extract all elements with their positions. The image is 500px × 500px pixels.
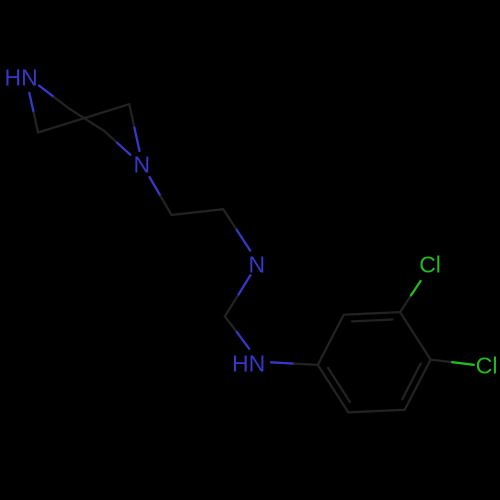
svg-text:Cl: Cl <box>476 352 498 378</box>
svg-text:N: N <box>249 252 266 278</box>
svg-text:Cl: Cl <box>419 252 441 278</box>
svg-text:HN: HN <box>232 351 265 377</box>
svg-text:HN: HN <box>5 64 38 90</box>
svg-text:N: N <box>134 152 151 178</box>
